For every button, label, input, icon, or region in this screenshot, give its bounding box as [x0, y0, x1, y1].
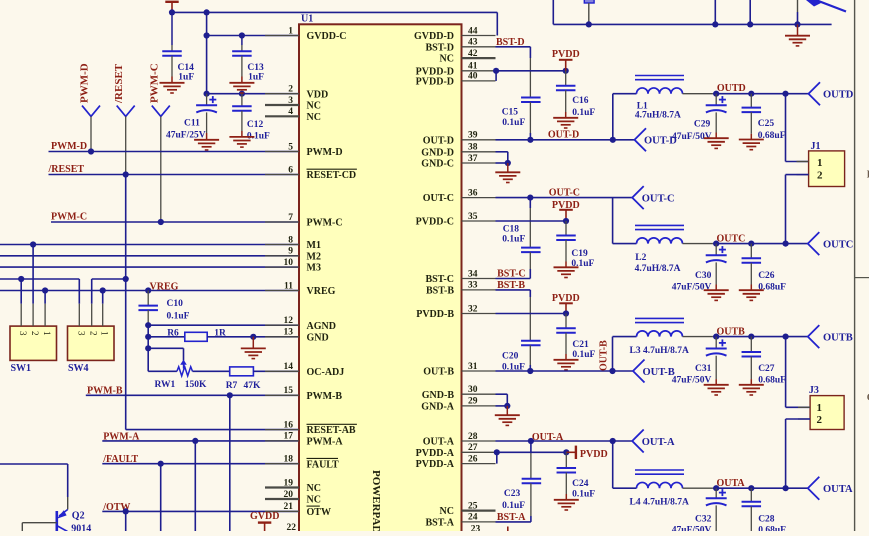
junction	[794, 21, 800, 27]
svg-text:C23: C23	[504, 489, 521, 499]
ground under C19	[554, 267, 579, 277]
svg-text:SW4: SW4	[68, 363, 89, 374]
svg-text:C26: C26	[758, 271, 775, 281]
svg-text:PWM-A: PWM-A	[307, 437, 344, 448]
junction GVDD/C14	[169, 9, 175, 15]
wire OUTD	[713, 93, 809, 95]
svg-text:NC: NC	[307, 483, 321, 494]
junction	[748, 91, 754, 97]
junction C23/OUT-A	[528, 438, 534, 444]
svg-text:OUTB: OUTB	[823, 332, 853, 343]
wire	[750, 506, 752, 531]
svg-text:4.7uH/8.7A: 4.7uH/8.7A	[635, 264, 681, 274]
wire vertical VREG divider	[147, 325, 149, 371]
pin 14 OC-ADJ	[265, 362, 344, 378]
wire to RW1 wiper	[148, 347, 183, 349]
svg-text:13: 13	[284, 328, 294, 338]
wire PWM-A to pin 17	[102, 440, 299, 442]
wire	[750, 134, 752, 140]
wire	[565, 112, 567, 118]
wire	[612, 441, 614, 488]
pin 6 RESET-CD	[265, 165, 357, 181]
port OUT-A	[632, 430, 675, 453]
svg-text:PWM-D: PWM-D	[51, 141, 87, 152]
svg-text:0.1uF: 0.1uF	[572, 490, 595, 500]
wire	[750, 337, 752, 352]
wire	[529, 208, 531, 248]
wire	[530, 483, 532, 516]
svg-text:GVDD-C: GVDD-C	[307, 31, 347, 42]
wire BST-A	[496, 521, 531, 523]
wire OUTA	[713, 487, 808, 489]
svg-text:M3: M3	[307, 263, 321, 274]
wire	[529, 133, 531, 140]
junction	[712, 21, 718, 27]
wire RW1 wiper drop	[183, 348, 185, 360]
svg-text:NC: NC	[440, 506, 454, 517]
wire	[147, 291, 149, 306]
pin 1 GVDD-C	[265, 26, 347, 42]
ground under C13	[229, 83, 254, 93]
svg-text:BST-B: BST-B	[497, 280, 525, 291]
junction	[42, 287, 48, 293]
wire to ground	[252, 337, 254, 349]
wire	[530, 441, 532, 452]
junction C10/AGND	[145, 322, 151, 328]
wire /RESET vertical	[125, 175, 127, 430]
svg-text:30: 30	[468, 385, 478, 395]
ground under C24	[554, 500, 579, 510]
connector J3	[810, 396, 844, 430]
junction C18/OUT-C	[527, 195, 533, 201]
power symbol PVDD ch A	[566, 446, 576, 459]
wire M2	[0, 255, 299, 257]
wire Q2 collector pin	[67, 497, 69, 510]
wire SW1 pin3 riser	[20, 279, 22, 304]
pin 2 VDD	[265, 85, 328, 101]
wire	[529, 58, 531, 98]
svg-text:0.68uF: 0.68uF	[758, 283, 786, 293]
svg-text:1: 1	[817, 157, 823, 169]
svg-text:12: 12	[284, 316, 294, 326]
wire	[715, 94, 717, 106]
svg-text:41: 41	[468, 62, 478, 72]
svg-text:2: 2	[288, 85, 293, 95]
pin 29 GND-A	[421, 397, 495, 413]
wire	[241, 131, 243, 137]
svg-text:0.1uF: 0.1uF	[167, 311, 190, 321]
svg-text:OC-ADJ: OC-ADJ	[307, 367, 345, 378]
ground under C12	[229, 137, 254, 147]
port OUTD	[809, 82, 854, 105]
pin 17 PWM-A	[265, 432, 343, 448]
ground under C25	[739, 140, 764, 150]
wire	[241, 94, 243, 107]
pin 11 VREG	[265, 281, 336, 297]
junction	[748, 485, 754, 491]
wire	[241, 111, 243, 131]
wire	[530, 452, 532, 479]
svg-text:20: 20	[284, 490, 294, 500]
wire BST-C	[496, 278, 531, 280]
junction PWM-C	[158, 219, 164, 225]
port OUTA	[808, 477, 853, 500]
wire OUTB	[713, 336, 808, 338]
svg-text:26: 26	[468, 454, 478, 464]
pin 27 PVDD-A	[416, 443, 496, 459]
wire	[750, 244, 752, 259]
svg-text:PWM-B: PWM-B	[307, 391, 343, 402]
junction PWM-B	[227, 392, 233, 398]
wire	[565, 473, 567, 495]
wire PWM-D to pin 5	[49, 151, 300, 153]
svg-text:J1: J1	[811, 141, 821, 152]
ground under C30	[704, 290, 729, 300]
wire	[241, 36, 243, 46]
svg-text:GVDD: GVDD	[250, 511, 279, 522]
wire top bus	[553, 23, 831, 25]
svg-text:RESET-CD: RESET-CD	[307, 170, 357, 181]
svg-text:OUT-B: OUT-B	[599, 340, 610, 371]
ground under C14	[160, 83, 185, 93]
svg-text:L3 4.7uH/8.7A: L3 4.7uH/8.7A	[630, 346, 690, 356]
wire pin26 riser	[496, 452, 498, 463]
wire OUT-A	[496, 440, 633, 442]
svg-text:C12: C12	[247, 120, 264, 130]
wire to SW4 pin2	[91, 279, 93, 304]
svg-text:28: 28	[468, 432, 478, 442]
ground under C29	[704, 138, 729, 148]
inductor coil	[635, 318, 684, 336]
wire	[613, 336, 637, 338]
wire Q2 base	[22, 522, 57, 524]
pin 9 M2	[265, 247, 321, 263]
svg-text:PVDD-A: PVDD-A	[416, 459, 455, 470]
svg-text:6: 6	[288, 165, 293, 175]
wire	[529, 297, 531, 341]
junction net4a/SW1 pin3	[18, 276, 24, 282]
wire J3 pin1 stub	[786, 406, 811, 408]
pin 43 BST-D	[425, 38, 495, 54]
svg-text:AGND: AGND	[307, 321, 336, 332]
pin 31 OUT-B	[423, 362, 495, 378]
wire	[715, 505, 717, 531]
wire	[529, 47, 531, 58]
svg-text:PWM-D: PWM-D	[307, 147, 343, 158]
svg-text:0.68uF: 0.68uF	[758, 526, 786, 532]
junction PWM-A	[192, 438, 198, 444]
port OUT-D	[635, 128, 678, 151]
pin 25 NC	[440, 501, 496, 517]
wire	[529, 198, 531, 208]
wire	[750, 285, 752, 291]
svg-text:C29: C29	[694, 120, 711, 130]
svg-text:NC: NC	[440, 54, 454, 65]
svg-text:7: 7	[288, 213, 293, 223]
svg-text:C18: C18	[503, 225, 520, 235]
wire R7 to pin 14	[253, 370, 299, 372]
svg-text:34: 34	[468, 269, 478, 279]
svg-text:SW1: SW1	[11, 363, 32, 374]
power symbol GVDD top	[165, 2, 178, 13]
wire to pin 2 VDD	[207, 93, 299, 95]
svg-text:43: 43	[468, 38, 478, 48]
pin 8 M1	[265, 235, 321, 251]
svg-text:POWERPAD: POWERPAD	[370, 470, 382, 531]
junction	[782, 91, 788, 97]
svg-text:OUT-C: OUT-C	[423, 193, 454, 204]
wire	[506, 394, 508, 406]
wire PVDD-D	[496, 70, 566, 72]
junction GVDD drop	[204, 9, 210, 15]
wire stub 2	[714, 0, 716, 24]
wire PWM-B down	[229, 395, 231, 531]
wire AGND to pin 12	[148, 324, 299, 326]
wire	[171, 45, 173, 51]
svg-text:OUTD: OUTD	[823, 90, 854, 101]
svg-text:C27: C27	[758, 364, 775, 374]
svg-text:OUT-D: OUT-D	[548, 129, 579, 140]
svg-text:U1: U1	[301, 14, 313, 25]
svg-text:2: 2	[89, 331, 99, 336]
junction PVDD/C24	[563, 449, 569, 455]
wire /RESET to pin 6	[49, 174, 300, 176]
pin 38 GND-D	[421, 143, 495, 159]
junction GND-D/C	[505, 160, 511, 166]
wire OUTC	[713, 243, 808, 245]
pin 32 PVDD-B	[416, 304, 495, 320]
port OUTC	[808, 232, 854, 255]
wire	[750, 263, 752, 285]
wire	[529, 290, 531, 297]
wire	[565, 240, 567, 262]
wire	[171, 12, 173, 45]
junction L1 tap	[610, 137, 616, 143]
svg-text:OUT-A: OUT-A	[423, 437, 455, 448]
junction GND tap	[250, 334, 256, 340]
svg-text:27: 27	[468, 443, 478, 453]
wire vertical to VDD	[206, 12, 208, 93]
junction	[783, 334, 789, 340]
svg-text:FAULT: FAULT	[307, 459, 340, 470]
wire	[715, 262, 717, 284]
svg-text:C20: C20	[502, 352, 519, 362]
wire	[613, 243, 637, 245]
ground top right	[785, 36, 810, 46]
port /RESET harness	[117, 106, 135, 117]
wire	[565, 494, 567, 500]
svg-text:BST-C: BST-C	[497, 269, 526, 280]
pin 7 PWM-C	[265, 213, 343, 229]
svg-text:C25: C25	[758, 119, 775, 129]
wire	[529, 252, 531, 269]
svg-text:C19: C19	[571, 249, 588, 259]
ground under C31	[704, 385, 729, 395]
wire stub 4 upper	[797, 0, 799, 12]
wire J1 pin1 stub	[786, 161, 809, 163]
port PWM-C harness	[152, 106, 170, 117]
junction GND-B/A	[504, 403, 510, 409]
connector SW1	[10, 304, 57, 375]
svg-text:OUTC: OUTC	[823, 239, 853, 250]
pin 15 PWM-B	[265, 386, 342, 402]
svg-text:C32: C32	[695, 514, 712, 524]
svg-text:0.1uF: 0.1uF	[502, 235, 525, 245]
svg-text:4: 4	[288, 107, 293, 117]
ground under C26	[739, 290, 764, 300]
svg-text:BST-D: BST-D	[496, 37, 525, 48]
wire PWM-B to pin 15	[86, 394, 299, 396]
junction net4b//RESET	[123, 276, 129, 282]
transistor Q2 9014	[57, 510, 68, 532]
connector SW4	[68, 304, 115, 375]
svg-text:OUTB: OUTB	[717, 327, 746, 338]
svg-text:M1: M1	[307, 240, 321, 251]
junction	[748, 334, 754, 340]
svg-text:150K: 150K	[185, 380, 207, 390]
svg-text:2: 2	[817, 169, 823, 181]
ground under C21	[554, 360, 579, 370]
wire J3 pin2 stub	[786, 418, 811, 420]
pin 30 GND-B	[422, 385, 496, 401]
svg-text:C13: C13	[247, 63, 264, 73]
port OUT-C	[632, 186, 674, 209]
svg-text:C16: C16	[572, 96, 589, 106]
svg-text:47uF/50V: 47uF/50V	[672, 132, 712, 142]
wire	[715, 285, 717, 291]
wire BST-D	[496, 46, 531, 48]
wire	[613, 487, 637, 489]
wire	[613, 93, 637, 95]
svg-text:R6: R6	[167, 329, 179, 339]
wire	[241, 77, 243, 83]
junction PWM-D	[88, 148, 94, 154]
wire pin40 riser	[495, 71, 497, 81]
wire OUTB inductor lead	[683, 336, 713, 338]
wire	[206, 94, 208, 106]
svg-text:PVDD-B: PVDD-B	[416, 309, 454, 320]
wire	[565, 354, 567, 360]
svg-text:NC: NC	[307, 101, 321, 112]
power symbol stem below pin 23	[507, 527, 509, 532]
svg-text:OUT-A: OUT-A	[642, 437, 675, 448]
wire PVDD-A	[496, 451, 567, 453]
svg-text:C11: C11	[184, 118, 200, 128]
ground under C27	[739, 385, 764, 395]
svg-text:1: 1	[100, 331, 110, 336]
pin 24 BST-A	[425, 513, 495, 529]
junction C20/OUT-B	[527, 368, 533, 374]
svg-text:GND-C: GND-C	[421, 159, 454, 170]
svg-text:J3: J3	[809, 385, 819, 396]
svg-text:1: 1	[288, 26, 293, 36]
svg-text:47uF/50V: 47uF/50V	[672, 526, 712, 532]
svg-text:15: 15	[284, 386, 294, 396]
svg-text:PWM-C: PWM-C	[148, 63, 160, 103]
svg-text:32: 32	[468, 304, 478, 314]
svg-text:4.7uH/8.7A: 4.7uH/8.7A	[635, 111, 681, 121]
pin 33 BST-B	[426, 281, 495, 297]
inductor coil	[635, 470, 684, 488]
junction	[713, 334, 719, 340]
wire Q2 collector drop	[67, 464, 69, 497]
wire	[715, 356, 717, 379]
svg-text:C24: C24	[572, 479, 589, 489]
svg-text:BST-D: BST-D	[425, 42, 454, 53]
wire J1 pin2 stub	[786, 174, 809, 176]
wire stub 3	[749, 0, 751, 24]
wire net4b	[92, 278, 126, 280]
wire	[750, 94, 752, 108]
wire OUTA inductor lead	[683, 487, 713, 489]
svg-text:3: 3	[288, 96, 293, 106]
wire	[506, 406, 508, 415]
svg-text:2: 2	[817, 414, 823, 426]
pin 34 BST-C	[425, 269, 495, 285]
svg-text:Q2: Q2	[72, 511, 85, 522]
wire /RESET port stem	[125, 116, 127, 174]
svg-text:31: 31	[468, 362, 478, 372]
wire	[206, 112, 208, 133]
junction PVDD/C16	[563, 68, 569, 74]
svg-text:0.1uF: 0.1uF	[502, 501, 525, 511]
wire	[750, 379, 752, 385]
wire PVDD-B	[496, 313, 567, 315]
svg-text:RW1: RW1	[155, 380, 176, 390]
svg-text:C15: C15	[502, 108, 519, 118]
junction C12 tap	[239, 91, 245, 97]
pin 20 NC	[265, 490, 321, 506]
svg-text:OUTA: OUTA	[717, 478, 746, 489]
ground pins 29/30	[495, 415, 520, 425]
svg-text:24: 24	[468, 513, 478, 523]
wire to J1 pin 1	[785, 94, 787, 162]
wire OUT-B	[496, 370, 634, 372]
wire	[565, 314, 567, 329]
wire M1	[0, 244, 299, 246]
wire	[507, 163, 509, 172]
junction	[783, 241, 789, 247]
wire RW1 to R7	[193, 370, 230, 372]
svg-text:39: 39	[468, 131, 478, 141]
svg-text:8: 8	[288, 235, 293, 245]
junction	[100, 287, 106, 293]
sheet border right edge	[854, 0, 856, 531]
svg-text:GND-A: GND-A	[421, 402, 455, 413]
port OUTB	[808, 325, 853, 348]
svg-text:OUT-D: OUT-D	[423, 135, 454, 146]
pin 4 NC	[265, 107, 321, 123]
wire	[530, 516, 532, 522]
ground under C16	[553, 118, 578, 128]
inductor coil	[635, 225, 684, 243]
wire M3	[0, 266, 299, 268]
pin 16 RESET-AB	[265, 420, 357, 436]
wire	[171, 77, 173, 83]
junction wiper branch	[145, 345, 151, 351]
wire	[565, 90, 567, 112]
svg-text:21: 21	[284, 502, 294, 512]
svg-text:38: 38	[468, 143, 478, 153]
svg-text:9014: 9014	[71, 523, 91, 531]
wire stub 4 lower	[797, 12, 799, 24]
wire OUTD inductor lead	[683, 93, 713, 95]
svg-text:M2: M2	[307, 251, 321, 262]
svg-text:PWM-C: PWM-C	[307, 218, 343, 229]
wire	[612, 337, 614, 371]
junction pins 26/27	[494, 449, 500, 455]
svg-text:3: 3	[18, 331, 28, 336]
